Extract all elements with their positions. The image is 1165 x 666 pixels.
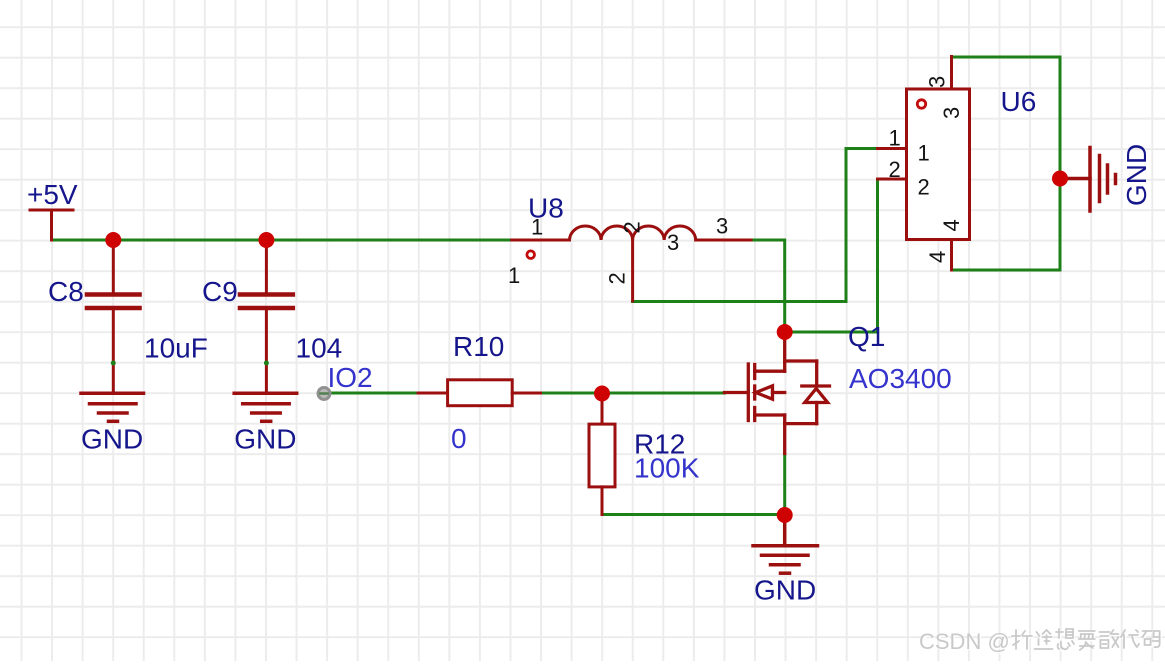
ground GND under Q1 [753,515,818,573]
svg-text:2: 2 [605,272,630,284]
junction: C9 at +5V rail [258,232,274,248]
svg-text:2: 2 [889,157,901,182]
node: C9 pin2 endpoint dot [264,361,269,366]
svg-text:4: 4 [925,251,950,263]
wire: IO2 to R10 left lead [324,392,418,395]
svg-text:2: 2 [620,221,645,233]
svg-text:1: 1 [889,125,901,150]
capacitor C9 [240,240,293,393]
ground GND under C8 [81,393,144,421]
ground GND under C9 [234,393,297,421]
junction: C8 at +5V rail [105,232,121,248]
svg-text:10uF: 10uF [144,333,208,364]
svg-text:4: 4 [939,219,964,231]
IC U6 [878,57,970,271]
wire: Q1 source down to GND junction [783,454,786,516]
wire: U6 pin2 down to Q1 drain junction [785,179,878,332]
svg-text:AO3400: AO3400 [849,363,952,394]
junction: Q1 source GND node [777,507,793,523]
svg-text:3: 3 [925,76,950,88]
svg-text:C9: C9 [202,276,238,307]
node: C8 pin2 endpoint dot [111,361,116,366]
node IO2 pin endpoint [318,388,330,400]
transistor Q1 (NMOS AO3400) [725,340,830,454]
svg-text:3: 3 [667,230,679,255]
svg-text:104: 104 [296,333,343,364]
svg-text:GND: GND [1121,144,1152,206]
inductor U8 [512,226,751,301]
power +5V symbol [30,210,73,240]
svg-text:1: 1 [531,215,543,240]
svg-text:R10: R10 [453,331,504,362]
svg-text:Q1: Q1 [848,321,885,352]
svg-text:100K: 100K [634,453,700,484]
U8 pin 1 dot marker [527,251,535,259]
wire: U8 pin3 to corner going down to Q1 drain junction [751,240,785,332]
ground GND right of U6 (rotated) [1060,148,1116,212]
svg-text:1: 1 [918,141,930,166]
svg-text:GND: GND [754,575,816,606]
svg-text:GND: GND [81,424,143,455]
resistor R12 [589,394,615,515]
junction: R12 top at IO2 net [594,386,610,402]
svg-text:+5V: +5V [27,179,78,210]
wire: +5V rail top horizontal [52,239,512,242]
svg-text:U6: U6 [1001,86,1037,117]
svg-text:0: 0 [451,423,467,454]
wire: U6 pin3 right and down right side [952,57,1061,270]
svg-text:2: 2 [918,175,930,200]
resistor R10 [418,380,541,406]
svg-text:3: 3 [716,214,728,239]
svg-text:C8: C8 [48,276,84,307]
svg-text:3: 3 [939,107,964,119]
wire: U8 tap pin2 down-right-up to U6 pin1 [633,149,878,302]
junction: Q1 drain node [777,324,793,340]
svg-text:IO2: IO2 [328,362,373,393]
svg-text:1: 1 [508,263,520,288]
wire: R10 right lead to Q1 gate [541,392,725,395]
capacitor C8 [87,240,140,393]
junction: U6 right rail at GND [1052,171,1068,187]
U6 pin 1 marker dot [917,100,925,108]
svg-text:GND: GND [234,424,296,455]
wire: R12 bottom to Q1 source GND junction [602,513,785,516]
